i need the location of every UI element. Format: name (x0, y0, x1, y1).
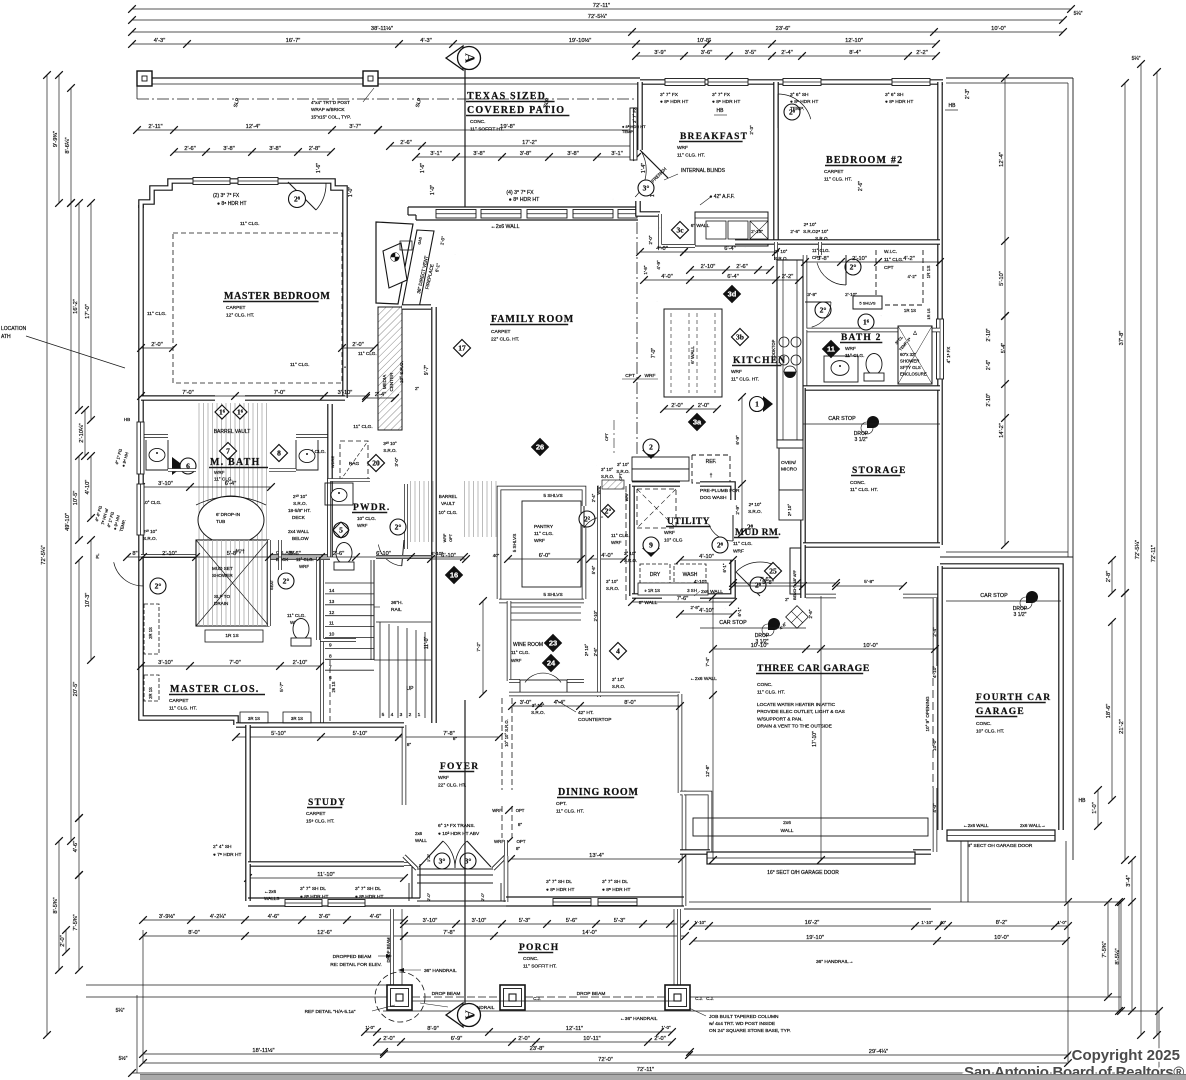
svg-text:9: 9 (649, 541, 653, 550)
svg-text:BELOW: BELOW (292, 536, 309, 541)
svg-text:2’-0": 2’-0" (698, 403, 710, 409)
svg-text:26 1S: 26 1S (331, 681, 336, 692)
svg-text:WINE ROOM: WINE ROOM (513, 642, 543, 648)
svg-text:2° 4° SH: 2° 4° SH (213, 844, 232, 850)
svg-text:WRF: WRF (494, 839, 504, 844)
svg-text:3° 7° FX: 3° 7° FX (632, 107, 637, 123)
svg-text:3R 1S: 3R 1S (291, 716, 303, 721)
svg-text:10° CLG: 10° CLG (664, 538, 683, 544)
svg-text:10’-10": 10’-10" (751, 643, 769, 649)
svg-text:3’-1": 3’-1" (430, 151, 442, 157)
svg-text:60"x 32": 60"x 32" (900, 352, 916, 357)
svg-text:3° 7° SH DL: 3° 7° SH DL (300, 886, 326, 892)
svg-text:10° S.R.O.: 10° S.R.O. (399, 361, 404, 383)
svg-text:12’-11": 12’-11" (566, 1026, 583, 1032)
svg-text:(2) 3° 7° FX: (2) 3° 7° FX (213, 193, 240, 199)
svg-text:DROP BEAM: DROP BEAM (386, 937, 391, 963)
svg-text:7’-6": 7’-6" (677, 596, 689, 602)
svg-text:4: 4 (391, 712, 394, 718)
svg-text:4’-0": 4’-0" (661, 274, 673, 280)
svg-text:5’-6": 5’-6" (591, 565, 596, 574)
svg-text:KITCHEN: KITCHEN (733, 356, 786, 366)
svg-text:11° CLG.: 11° CLG. (240, 221, 259, 227)
svg-text:2’-11": 2’-11" (148, 124, 162, 130)
svg-text:6’-1": 6’-1" (737, 607, 742, 616)
svg-text:17’-0": 17’-0" (85, 304, 91, 319)
svg-text:S.R.O.: S.R.O. (606, 586, 619, 591)
svg-text:W/SUPPORT & PAN.: W/SUPPORT & PAN. (757, 716, 803, 722)
svg-text:4’-10": 4’-10" (932, 666, 937, 678)
svg-text:10’-5": 10’-5" (73, 491, 79, 506)
svg-text:THREE CAR GARAGE: THREE CAR GARAGE (757, 663, 870, 674)
svg-text:PL: PL (95, 553, 100, 559)
svg-text:2: 2 (649, 443, 653, 452)
svg-text:1’-0": 1’-0" (1058, 920, 1067, 925)
svg-text:HB: HB (949, 103, 957, 109)
svg-text:8: 8 (329, 653, 332, 659)
svg-text:24: 24 (547, 659, 556, 668)
svg-text:2’-3": 2’-3" (965, 89, 971, 99)
svg-text:1⁶: 1⁶ (219, 408, 226, 417)
svg-text:10’-11": 10’-11" (583, 1036, 600, 1042)
svg-text:8° SECT OH GARAGE DOOR: 8° SECT OH GARAGE DOOR (968, 843, 1033, 849)
svg-text:DRAIN: DRAIN (214, 601, 228, 606)
svg-text:SFTY GLS: SFTY GLS (900, 365, 921, 370)
svg-text:4’-0": 4’-0" (932, 803, 937, 813)
svg-text:6’ DROP-IN: 6’ DROP-IN (216, 512, 240, 517)
svg-text:11° CLG.: 11° CLG. (290, 362, 309, 368)
svg-text:3b: 3b (736, 333, 744, 342)
svg-text:4’-0": 4’-0" (601, 553, 613, 559)
svg-text:10’-8": 10’-8" (697, 38, 711, 44)
svg-text:1’-0": 1’-0" (365, 1025, 375, 1030)
svg-text:2’-10¼": 2’-10¼" (79, 423, 85, 442)
svg-text:11° CLG.: 11° CLG. (511, 650, 530, 655)
svg-text:WDRE: WDRE (330, 456, 335, 469)
svg-text:12° CLG. HT.: 12° CLG. HT. (226, 313, 254, 319)
svg-text:1⁶: 1⁶ (863, 318, 870, 327)
svg-text:CAR STOP: CAR STOP (980, 593, 1008, 599)
svg-text:16’-2": 16’-2" (73, 299, 79, 314)
svg-text:10’-0": 10’-0" (863, 643, 878, 649)
svg-text:2’-6": 2’-6" (790, 229, 800, 234)
svg-text:CAR STOP: CAR STOP (828, 416, 856, 422)
svg-text:25: 25 (769, 567, 777, 576)
svg-text:● 8⁶ HDR HT: ● 8⁶ HDR HT (885, 99, 913, 105)
svg-text:TEMP.: TEMP. (622, 129, 634, 134)
svg-text:4’-0": 4’-0" (656, 246, 668, 252)
svg-text:W.I.C.: W.I.C. (884, 249, 897, 255)
svg-text:C.J.: C.J. (695, 996, 702, 1001)
svg-text:3’-8": 3’-8" (520, 151, 532, 157)
svg-text:5’-10": 5’-10" (353, 731, 368, 737)
svg-text:OPT: OPT (449, 533, 453, 541)
svg-text:1’-3": 1’-3" (426, 853, 431, 862)
svg-text:MASTER BEDROOM: MASTER BEDROOM (224, 291, 330, 302)
svg-text:2’-4": 2’-4" (781, 50, 793, 56)
svg-text:● 7⁸ HDR HT: ● 7⁸ HDR HT (213, 852, 241, 858)
svg-text:5’-3": 5’-3" (614, 918, 626, 924)
svg-text:ATH: ATH (1, 334, 11, 340)
svg-text:Copyright 2025: Copyright 2025 (1072, 1047, 1180, 1064)
svg-text:WRF: WRF (664, 530, 675, 536)
svg-text:6’-10": 6’-10" (376, 551, 391, 557)
svg-text:OPT: OPT (516, 808, 525, 813)
svg-text:4’-6": 4’-6" (73, 841, 79, 853)
svg-text:2x6: 2x6 (783, 820, 791, 826)
svg-text:72’-11": 72’-11" (1151, 545, 1157, 562)
svg-text:38’-11½": 38’-11½" (371, 25, 393, 32)
svg-text:4’-6": 4’-6" (370, 914, 382, 920)
svg-text:CARPET: CARPET (824, 169, 844, 175)
svg-text:10° CLG.: 10° CLG. (357, 516, 376, 521)
svg-text:4’-3": 4’-3" (420, 38, 432, 44)
svg-text:WRF: WRF (733, 549, 744, 555)
svg-text:PANTRY: PANTRY (534, 524, 554, 530)
svg-text:8’-2": 8’-2" (996, 920, 1008, 926)
svg-text:4’-2": 4’-2" (908, 274, 917, 279)
svg-text:3 SH: 3 SH (687, 588, 697, 593)
svg-text:6’ WALL: 6’ WALL (690, 346, 696, 364)
svg-text:SHOWER: SHOWER (212, 573, 233, 578)
svg-text:3’-9": 3’-9" (654, 50, 666, 56)
svg-text:WRF: WRF (438, 775, 449, 781)
svg-text:19’-10": 19’-10" (806, 935, 824, 941)
svg-text:1’-10": 1’-10" (694, 920, 706, 925)
svg-text:5¼": 5¼" (1132, 56, 1141, 62)
svg-text:3° 7° FX: 3° 7° FX (712, 92, 731, 98)
svg-text:11° CLG. HT.: 11° CLG. HT. (850, 487, 878, 493)
svg-text:3a: 3a (693, 418, 702, 427)
svg-text:2⁸ 10°: 2⁸ 10° (749, 502, 762, 507)
svg-text:2’-10": 2’-10" (751, 229, 763, 234)
svg-text:S.R.O.: S.R.O. (748, 509, 762, 514)
svg-text:WRF: WRF (511, 658, 522, 663)
svg-text:1R 1S: 1R 1S (926, 308, 931, 319)
svg-text:WRF: WRF (357, 523, 368, 528)
svg-text:ON 24" SQUARE STONE BASE, TYP.: ON 24" SQUARE STONE BASE, TYP. (709, 1028, 791, 1034)
svg-text:3’-7": 3’-7" (349, 124, 361, 130)
svg-text:HB: HB (124, 417, 130, 422)
svg-text:SLP TO: SLP TO (214, 594, 231, 599)
svg-text:● 42" A.F.F.: ● 42" A.F.F. (709, 194, 734, 200)
svg-text:3 1/2": 3 1/2" (1014, 612, 1027, 618)
svg-text:4’-2¼": 4’-2¼" (210, 914, 226, 920)
svg-text:8: 8 (277, 449, 281, 458)
svg-text:S.R.O.: S.R.O. (143, 536, 157, 541)
svg-text:20’-5": 20’-5" (73, 682, 79, 697)
svg-text:2’-0": 2’-0" (648, 235, 653, 244)
svg-text:◑ 1R 1S: ◑ 1R 1S (644, 588, 660, 593)
svg-text:1’-10": 1’-10" (921, 920, 933, 925)
svg-text:COVERED PATIO: COVERED PATIO (467, 105, 565, 116)
svg-text:10’-0": 10’-0" (932, 739, 937, 751)
svg-text:3’-6": 3’-6" (319, 914, 331, 920)
svg-text:2’-4": 2’-4" (375, 392, 387, 398)
svg-text:10° 9° OPENING: 10° 9° OPENING (925, 696, 930, 732)
svg-text:4’-6": 4’-6" (268, 914, 280, 920)
svg-text:15"x15" COL., TYP.: 15"x15" COL., TYP. (311, 114, 351, 119)
svg-text:OPT: OPT (516, 839, 525, 844)
svg-text:RAG: RAG (349, 461, 360, 467)
svg-text:2: 2 (409, 712, 412, 718)
svg-text:6’-10": 6’-10" (441, 553, 456, 559)
svg-text:5 SHLVS: 5 SHLVS (859, 301, 875, 306)
svg-text:2x6 WALL: 2x6 WALL (701, 589, 723, 595)
svg-text:3’-10": 3’-10" (158, 660, 173, 666)
svg-text:5’-8": 5’-8" (864, 579, 874, 585)
svg-text:6’-9": 6’-9" (451, 1036, 463, 1042)
svg-text:23’-6": 23’-6" (776, 26, 791, 32)
svg-text:3’-4": 3’-4" (1126, 875, 1132, 887)
svg-text:6" WALL: 6" WALL (691, 223, 710, 229)
svg-text:2’-2": 2’-2" (916, 50, 928, 56)
svg-text:12’-4": 12’-4" (999, 152, 1005, 167)
svg-text:M. BATH: M. BATH (210, 457, 260, 468)
svg-text:2’-0": 2’-0" (352, 342, 364, 348)
svg-text:1’-8": 1’-8" (643, 265, 648, 274)
svg-text:11° CLG.: 11° CLG. (287, 613, 306, 618)
svg-text:4’-10": 4’-10" (699, 554, 714, 560)
svg-text:1’-6": 1’-6" (420, 163, 426, 173)
svg-text:3’-10": 3’-10" (158, 481, 173, 487)
svg-text:6’-4": 6’-4" (225, 481, 237, 487)
svg-text:S.R.O.: S.R.O. (803, 229, 817, 234)
svg-text:10° CLG.: 10° CLG. (143, 500, 162, 505)
svg-text:1: 1 (418, 712, 421, 718)
svg-text:CONC.: CONC. (976, 721, 991, 727)
svg-text:WRAP w/BRICK: WRAP w/BRICK (311, 107, 346, 112)
svg-text:GARAGE: GARAGE (976, 707, 1025, 717)
svg-text:2⁸ 10°: 2⁸ 10° (816, 229, 829, 234)
svg-text:DRY: DRY (650, 572, 661, 578)
svg-text:8’-0": 8’-0" (624, 700, 636, 706)
svg-text:5’-3": 5’-3" (519, 918, 531, 924)
svg-text:7’-0": 7’-0" (651, 348, 657, 358)
svg-text:9’-7": 9’-7" (424, 365, 430, 375)
svg-text:CONC.: CONC. (757, 682, 772, 688)
svg-text:8’-5¾": 8’-5¾" (53, 897, 59, 913)
svg-text:OPT.: OPT. (556, 801, 567, 807)
svg-text:S.R.O.: S.R.O. (531, 710, 545, 715)
svg-text:WRF: WRF (677, 145, 688, 151)
svg-text:6° 1⁶ FX TRANS.: 6° 1⁶ FX TRANS. (438, 823, 475, 829)
svg-text:11° CLG.: 11° CLG. (733, 541, 752, 547)
svg-text:1’-0": 1’-0" (430, 185, 436, 195)
svg-text:5¼": 5¼" (1074, 11, 1083, 17)
svg-text:8": 8" (407, 742, 412, 747)
svg-text:1’-0": 1’-0" (1092, 802, 1098, 814)
svg-text:3’-8": 3’-8" (269, 146, 281, 152)
svg-text:CAR STOP: CAR STOP (719, 620, 747, 626)
svg-text:14’-2": 14’-2" (999, 423, 1005, 438)
svg-text:3d: 3d (728, 290, 737, 299)
svg-text:DRAIN & VENT TO THE OUTSIDE: DRAIN & VENT TO THE OUTSIDE (757, 724, 832, 730)
svg-text:6’-4": 6’-4" (727, 274, 739, 280)
svg-text:● 8⁶ HDR HT: ● 8⁶ HDR HT (660, 99, 688, 105)
svg-text:CONC.: CONC. (850, 480, 865, 486)
svg-text:3: 3 (400, 712, 403, 718)
svg-text:†: † (710, 473, 713, 479)
svg-text:w/ 4x4 TRT. WD POST INSIDE: w/ 4x4 TRT. WD POST INSIDE (709, 1021, 775, 1027)
svg-text:2’-10": 2’-10" (845, 292, 857, 297)
svg-text:2R 1S: 2R 1S (148, 627, 153, 639)
svg-text:9: 9 (329, 643, 332, 649)
svg-text:2’-0": 2’-0" (480, 892, 485, 901)
svg-text:2x6: 2x6 (415, 831, 423, 836)
svg-text:3° 7° FX: 3° 7° FX (660, 92, 679, 98)
svg-text:3° 7° SH DL: 3° 7° SH DL (546, 879, 572, 885)
svg-text:INTERNAL BLINDS: INTERNAL BLINDS (681, 168, 726, 174)
svg-text:11° CLG. HT.: 11° CLG. HT. (731, 377, 759, 383)
svg-text:2⁸ 10°: 2⁸ 10° (584, 644, 589, 656)
svg-text:36"H.: 36"H. (391, 600, 403, 606)
svg-text:S.R.O.: S.R.O. (612, 684, 625, 689)
svg-text:8": 8" (516, 846, 520, 851)
svg-text:C.J.: C.J. (533, 996, 540, 1001)
svg-text:2’-10": 2’-10" (852, 256, 867, 262)
svg-text:WRF: WRF (645, 373, 656, 379)
svg-text:TEMP.: TEMP. (790, 106, 804, 112)
svg-text:2’-6": 2’-6" (184, 146, 196, 152)
svg-text:S.R.O.: S.R.O. (616, 469, 629, 474)
svg-text:14: 14 (329, 588, 335, 594)
svg-text:5: 5 (339, 526, 343, 535)
svg-text:7’-0": 7’-0" (182, 390, 194, 396)
svg-text:1R 1S: 1R 1S (926, 266, 931, 279)
svg-text:2’-8": 2’-8" (309, 146, 321, 152)
svg-text:2’-6": 2’-6" (400, 140, 412, 146)
svg-text:5’-6": 5’-6" (566, 918, 578, 924)
svg-text:MICRO: MICRO (781, 467, 797, 473)
svg-text:37’-8": 37’-8" (1119, 331, 1125, 346)
svg-text:18’-6": 18’-6" (1106, 704, 1112, 719)
svg-text:11° CLG.: 11° CLG. (147, 311, 166, 317)
svg-text:CARPET: CARPET (169, 698, 189, 704)
svg-text:● 8⁸ HDR HT: ● 8⁸ HDR HT (546, 887, 574, 893)
svg-text:9’-9¾": 9’-9¾" (53, 131, 59, 147)
svg-text:● 8⁸ HDR HT: ● 8⁸ HDR HT (602, 887, 630, 893)
svg-text:VAULT: VAULT (441, 501, 455, 506)
svg-text:11° CLG.: 11° CLG. (845, 353, 864, 359)
svg-text:16: 16 (450, 571, 458, 580)
svg-text:2°: 2° (605, 507, 612, 516)
svg-text:4"x4" TRT’D POST: 4"x4" TRT’D POST (311, 100, 350, 105)
svg-text:3° 10°: 3° 10° (624, 551, 636, 556)
svg-text:7’-5¾": 7’-5¾" (1102, 941, 1108, 957)
svg-text:←36" HANDRAIL: ←36" HANDRAIL (620, 1016, 658, 1022)
svg-text:20: 20 (372, 459, 380, 468)
svg-text:4: 4 (616, 647, 620, 656)
svg-text:5: 5 (382, 712, 385, 718)
svg-text:1R 1S: 1R 1S (904, 308, 916, 313)
svg-text:10° CLG.: 10° CLG. (439, 510, 458, 515)
svg-text:3° 10°: 3° 10° (601, 467, 613, 472)
svg-text:22° CLG. HT.: 22° CLG. HT. (438, 783, 466, 789)
svg-text:3’-6": 3’-6" (289, 551, 301, 557)
svg-text:7’-2": 7’-2" (476, 642, 481, 652)
svg-text:16’-7": 16’-7" (286, 38, 301, 44)
svg-text:S.R.O.: S.R.O. (774, 256, 788, 261)
svg-text:2’-10": 2’-10" (162, 551, 177, 557)
svg-text:3’-8": 3’-8" (473, 151, 485, 157)
svg-text:3R 1S: 3R 1S (248, 716, 260, 721)
svg-text:16’-2": 16’-2" (805, 920, 820, 926)
svg-text:WASH: WASH (683, 572, 698, 578)
svg-text:3’-0": 3’-0" (520, 700, 532, 706)
svg-text:←2x6: ←2x6 (264, 889, 276, 894)
svg-text:UP: UP (407, 686, 415, 692)
svg-text:7’-0": 7’-0" (274, 390, 286, 396)
svg-text:8": 8" (518, 822, 523, 827)
svg-text:1’-0": 1’-0" (661, 1025, 671, 1030)
svg-text:3 1/2": 3 1/2" (855, 437, 868, 443)
svg-text:CPT: CPT (884, 265, 894, 271)
svg-text:12’-6": 12’-6" (317, 930, 332, 936)
svg-text:2’-4": 2’-4" (932, 627, 937, 637)
svg-text:2’-10": 2’-10" (986, 393, 992, 406)
svg-text:2⁸ 10°: 2⁸ 10° (787, 504, 792, 516)
svg-text:1: 1 (755, 400, 759, 409)
svg-text:2²: 2² (584, 515, 591, 524)
svg-text:12: 12 (329, 610, 335, 616)
svg-text:5 SHLVS: 5 SHLVS (543, 493, 562, 499)
svg-text:2⁸: 2⁸ (717, 541, 724, 550)
svg-text:S.R.O.: S.R.O. (293, 501, 307, 506)
svg-text:COUNTERTOP: COUNTERTOP (578, 717, 611, 723)
svg-text:2’-0": 2’-0" (654, 1036, 666, 1042)
svg-text:LOCATION: LOCATION (1, 326, 27, 332)
svg-text:2’-9": 2’-9" (735, 505, 740, 515)
svg-text:S.R.O.: S.R.O. (815, 236, 829, 241)
svg-text:3°: 3° (439, 857, 446, 866)
svg-text:3°: 3° (643, 184, 650, 193)
svg-text:DECK: DECK (292, 515, 306, 520)
svg-text:3’-0": 3’-0" (394, 457, 399, 466)
svg-text:●: ● (344, 365, 346, 369)
svg-text:5’-10": 5’-10" (999, 271, 1005, 286)
svg-text:8’-4": 8’-4" (849, 50, 861, 56)
svg-text:RAIL: RAIL (391, 607, 402, 613)
svg-text:72’-5¼": 72’-5¼" (588, 14, 607, 20)
svg-text:WRF: WRF (731, 369, 742, 375)
svg-text:6’-10": 6’-10" (431, 551, 444, 557)
svg-text:7’-4": 7’-4" (705, 657, 710, 667)
svg-text:2’-0": 2’-0" (671, 403, 683, 409)
svg-text:UTILITY: UTILITY (667, 517, 710, 527)
svg-text:3’-1": 3’-1" (611, 151, 623, 157)
svg-text:16° SECT O/H GARAGE DOOR: 16° SECT O/H GARAGE DOOR (767, 870, 839, 876)
svg-text:REF DETAIL "H/A-5.1a": REF DETAIL "H/A-5.1a" (305, 1009, 356, 1015)
svg-text:4’-10": 4’-10" (694, 579, 707, 585)
svg-text:CARPET: CARPET (226, 305, 246, 311)
svg-text:36" HANDRAIL: 36" HANDRAIL (424, 968, 457, 974)
svg-text:11° SOFFIT HT.: 11° SOFFIT HT. (470, 127, 504, 133)
svg-text:72’-5¼": 72’-5¼" (1135, 540, 1141, 559)
svg-text:HB: HB (1079, 798, 1087, 804)
svg-text:2’-6": 2’-6" (736, 264, 748, 270)
svg-text:C.J.: C.J. (706, 996, 713, 1001)
svg-text:3°: 3° (465, 857, 472, 866)
svg-text:10’-0": 10’-0" (994, 935, 1009, 941)
svg-text:5’-10": 5’-10" (271, 731, 286, 737)
svg-text:11° CLG.: 11° CLG. (358, 351, 377, 356)
svg-text:2’-10": 2’-10" (986, 328, 992, 341)
svg-text:3° 6° SH: 3° 6° SH (790, 92, 809, 98)
svg-text:11° CLG.: 11° CLG. (353, 424, 372, 430)
svg-text:3’-10": 3’-10" (338, 390, 353, 396)
svg-text:3° 10°: 3° 10° (612, 677, 624, 682)
